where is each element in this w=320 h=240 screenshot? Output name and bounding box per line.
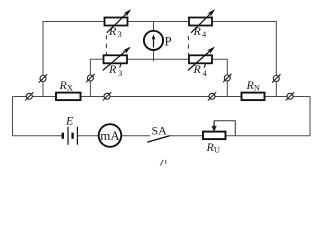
svg-text:mA: mA — [100, 128, 120, 143]
resistor RX — [56, 93, 81, 101]
switch SA — [148, 136, 169, 142]
label R3' — [108, 62, 122, 78]
wire P drop (top wire to row2) — [153, 22, 155, 62]
terminal (on right vertical) — [272, 74, 280, 82]
wire top loop (top wire + left/right verticals) — [43, 22, 276, 97]
terminal (bus far right) — [286, 92, 294, 100]
battery E — [63, 127, 78, 145]
label R3 — [108, 24, 122, 39]
terminal (bus far left) — [25, 92, 33, 100]
svg-text:R: R — [108, 24, 117, 38]
svg-text:R: R — [193, 62, 202, 76]
resistor R3 (variable) — [105, 10, 131, 33]
svg-text:4: 4 — [202, 29, 207, 39]
label SA — [152, 124, 168, 138]
svg-text:4: 4 — [203, 68, 208, 78]
terminal (row2 left drop) — [86, 74, 94, 82]
resistor R3' (variable) — [103, 48, 130, 71]
label RU — [206, 140, 220, 155]
svg-text:3: 3 — [118, 68, 122, 78]
svg-text:R: R — [108, 62, 117, 76]
cropped caption fragment — [160, 160, 166, 166]
gang link R4-R4' (dashed) — [187, 36, 189, 55]
svg-text:RN: RN — [246, 78, 260, 93]
svg-text:SA: SA — [152, 124, 168, 138]
terminal (row2 right drop) — [223, 74, 231, 82]
rheostat RU wiper arm — [212, 121, 235, 136]
svg-text:R: R — [193, 24, 202, 38]
wire bottom loop (battery branch + side rails) — [13, 97, 311, 136]
label RN — [246, 78, 260, 93]
resistor RN — [242, 93, 265, 101]
terminal (bus right of center) — [208, 92, 216, 100]
gang link R3-R3' (dashed) — [105, 35, 107, 55]
wire row3 (measuring bus) — [13, 96, 311, 98]
resistor R4 (variable) — [189, 10, 214, 33]
terminal (bus left of center) — [103, 92, 111, 100]
label R4' — [193, 62, 208, 78]
svg-text:RX: RX — [59, 78, 73, 93]
svg-text:P: P — [165, 34, 172, 49]
wire row2 (R3'/R4' branch with drops) — [90, 59, 227, 96]
label RX — [59, 78, 73, 93]
terminal (on left vertical) — [39, 74, 47, 82]
label P — [165, 34, 172, 49]
label E — [65, 114, 74, 128]
galvanometer P (circle with up arrow) — [144, 31, 163, 50]
label R4 — [193, 24, 208, 39]
rheostat RU (box) — [203, 132, 226, 140]
resistor R4' (variable) — [188, 48, 214, 71]
svg-text:RU: RU — [206, 140, 220, 155]
svg-text:3: 3 — [118, 29, 122, 39]
svg-text:E: E — [65, 114, 74, 128]
milliammeter mA — [99, 124, 122, 147]
